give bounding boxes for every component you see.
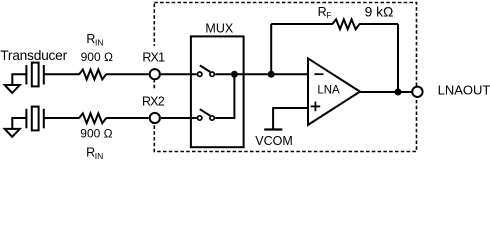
wire feedback left vertical (270, 24, 272, 74)
junction dot MUX output (231, 71, 238, 78)
wire transducer2 to resistor (44, 117, 80, 119)
wire opamp output (359, 91, 412, 93)
wire resistor to RX1 (106, 73, 149, 75)
transducer X1 (top piezo element) (26, 63, 43, 87)
junction dot output node (395, 89, 402, 96)
wire feedback top right segment (359, 23, 398, 25)
wire noninverting input to VCOM (273, 108, 308, 130)
svg-text:VCOM: VCOM (255, 134, 293, 148)
wire feedback right vertical (397, 24, 399, 92)
svg-text:900 Ω: 900 Ω (80, 126, 112, 140)
ground (bottom transducer) (5, 118, 27, 137)
svg-text:RX1: RX1 (142, 51, 165, 65)
svg-text:900 Ω: 900 Ω (81, 50, 113, 64)
node LNAOUT terminal (412, 87, 422, 97)
op-amp U1 LNA (308, 58, 360, 125)
wire resistor to RX2 (106, 117, 149, 119)
wire transducer1 to resistor (44, 73, 80, 75)
svg-text:RX2: RX2 (142, 95, 165, 109)
switch S1 (top, open) (198, 65, 215, 76)
svg-text:MUX: MUX (205, 22, 233, 36)
ground (top transducer) (5, 74, 27, 93)
transducer X2 (bottom piezo element) (26, 107, 43, 131)
resistor RIN2 (900 ohm) (79, 113, 106, 123)
junction dot feedback node (268, 71, 275, 78)
VCOM terminal bar (264, 128, 282, 130)
switch S2 (bottom, open) (198, 109, 215, 120)
resistor RIN1 (900 ohm) (79, 70, 106, 80)
wire S1 to opamp inverting input (215, 73, 308, 75)
wire RX1 to MUX (161, 73, 197, 75)
dashed AFE boundary box (142, 3, 417, 152)
MUX box (191, 36, 244, 147)
svg-text:9 kΩ: 9 kΩ (365, 4, 394, 19)
wire RX2 to MUX (161, 117, 197, 119)
svg-text:Transducer: Transducer (0, 48, 67, 63)
resistor RF (9 kohm) (332, 19, 359, 29)
svg-text:LNAOUT: LNAOUT (438, 83, 490, 98)
svg-text:LNA: LNA (317, 84, 340, 96)
wire feedback top left segment (271, 23, 333, 25)
wire S2 up to MUX output junction (215, 74, 234, 118)
node RX2 terminal (150, 113, 160, 123)
node RX1 terminal (150, 69, 160, 79)
